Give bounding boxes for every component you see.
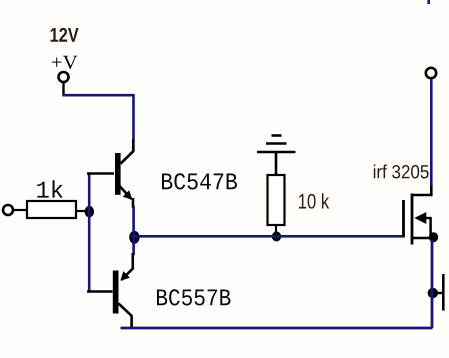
wire: R1 right lead — [76, 210, 89, 212]
wire: source vertical to bottom — [431, 240, 434, 328]
wire: stub below +V circle — [62, 83, 64, 96]
connector bar — [442, 274, 445, 311]
wire: vertical down to Q1 collector — [132, 94, 135, 141]
transistor Q2 BC557B emitter with arrow — [122, 253, 133, 280]
label 10 k — [299, 193, 329, 208]
transistor Q1 BC547B base lead — [87, 172, 114, 174]
transistor Q1 BC547B emitter with arrow — [120, 186, 132, 199]
transistor Q1 BC547B collector — [121, 140, 134, 164]
connector stub right — [433, 292, 443, 294]
wire: top edge stub — [427, 0, 430, 4]
resistor R1 body — [27, 201, 76, 218]
resistor R2 body — [268, 175, 285, 225]
wire: drain vertical blue — [430, 79, 433, 187]
mosfet U1 substrate arrow — [414, 212, 426, 224]
transistor Q2 BC557B base lead — [87, 290, 113, 292]
wire: top horizontal from +V to collector drop — [62, 94, 133, 97]
ground symbol (inverted) — [257, 136, 296, 176]
transistor Q2 BC557B base bar — [113, 271, 119, 314]
wire: vertical base bus — [88, 174, 91, 292]
label 1k — [37, 180, 62, 197]
terminal +V circle — [59, 72, 69, 82]
node: bottom right junction dot — [428, 288, 438, 298]
mosfet U1 source lead — [412, 237, 430, 240]
wire: input lead — [13, 209, 27, 211]
label 12V — [51, 28, 79, 42]
mosfet U1 substrate to source — [429, 217, 432, 236]
wire: Q1 emitter to node — [132, 206, 135, 255]
label irf 3205 — [374, 165, 429, 179]
mosfet U1 gate bar — [402, 200, 405, 238]
terminal drain circle — [426, 68, 436, 78]
terminal input circle — [3, 205, 13, 215]
node: emitter junction dot — [129, 231, 139, 244]
node: R2 junction dot — [272, 232, 281, 242]
wire: R2 bottom lead — [275, 225, 277, 234]
node: source junction dot — [429, 232, 438, 242]
mosfet U1 drain lead — [412, 186, 431, 195]
transistor Q2 BC557B collector — [119, 304, 132, 328]
label +V — [52, 56, 78, 69]
transistor Q1 BC547B base bar — [115, 153, 121, 195]
mosfet U1 channel bar — [411, 194, 414, 245]
label BC557B — [157, 289, 230, 305]
wire: bottom bus — [121, 327, 433, 330]
node: base junction dot — [85, 206, 95, 217]
wire: main horizontal bus — [131, 235, 403, 238]
label BC547B — [162, 173, 237, 189]
